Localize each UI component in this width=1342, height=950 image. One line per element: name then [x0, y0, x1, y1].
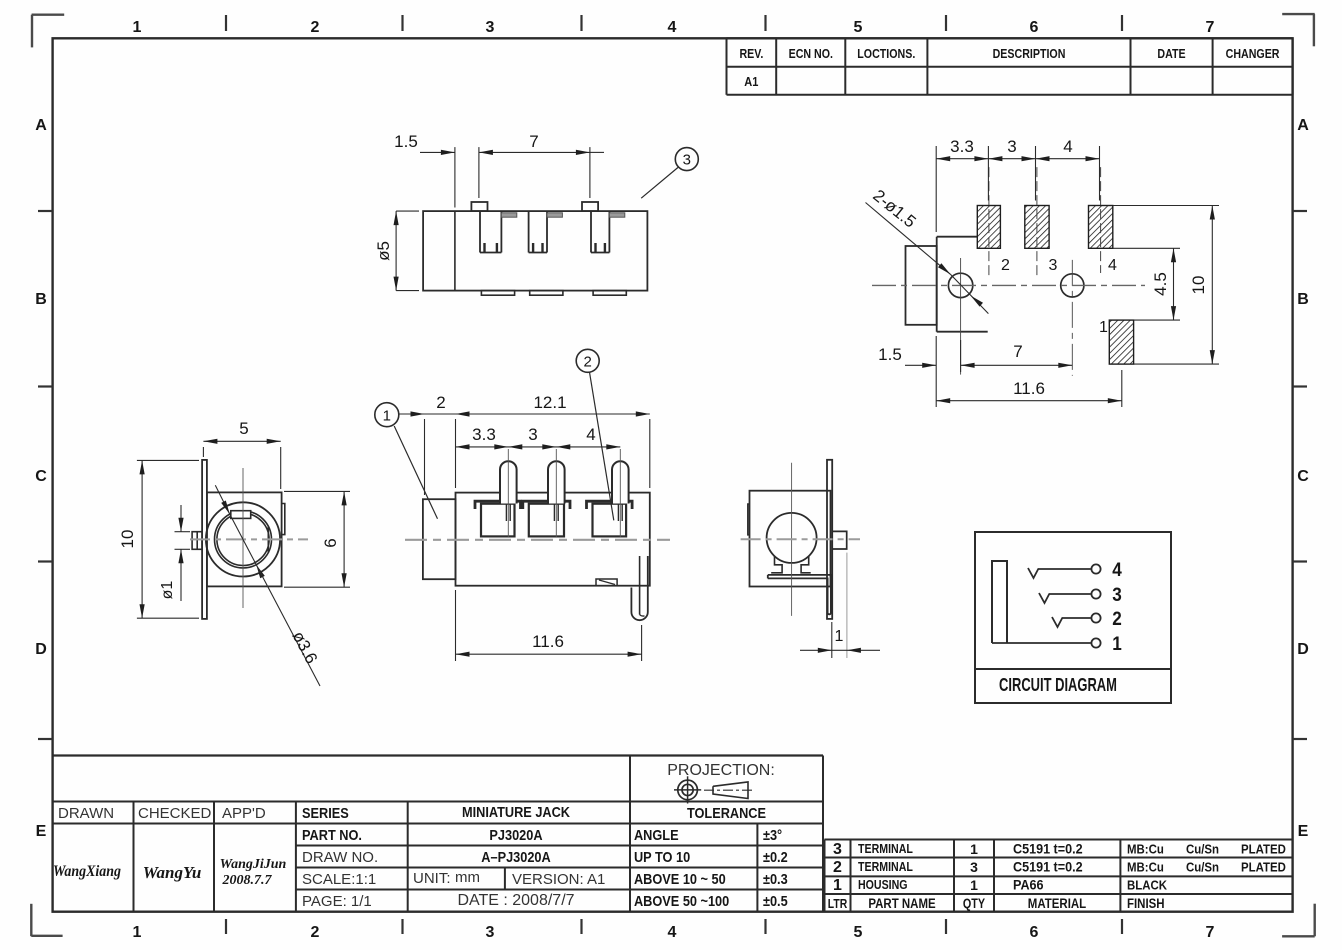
svg-text:1.5: 1.5 — [394, 132, 418, 151]
front view barrel circle — [206, 502, 280, 576]
bom header row — [828, 896, 1165, 911]
svg-text:2: 2 — [436, 393, 445, 412]
section view body — [456, 493, 650, 586]
svg-text:3.3: 3.3 — [472, 425, 496, 444]
circuit wire pin 3 — [1039, 593, 1091, 603]
signature drawn — [53, 863, 121, 880]
right view dimension 1 — [800, 553, 880, 658]
svg-text:C5191 t=0.2: C5191 t=0.2 — [1013, 859, 1083, 875]
svg-text:PART NAME: PART NAME — [868, 896, 935, 911]
svg-text:12.1: 12.1 — [533, 393, 566, 412]
section view contact cup 2 — [475, 501, 521, 536]
pcb pad 1 hatched — [1109, 320, 1133, 364]
svg-text:VERSION: A1: VERSION: A1 — [512, 871, 605, 888]
pcb pad 4 number — [1108, 257, 1117, 274]
section view pin 2 — [500, 449, 517, 537]
pcb pad 1 number — [1099, 319, 1108, 336]
right view centerlines — [741, 463, 860, 616]
svg-text:1: 1 — [1099, 319, 1108, 336]
pcb pad 2 hatched — [977, 206, 1000, 249]
svg-text:1: 1 — [970, 841, 978, 857]
svg-text:4: 4 — [668, 924, 677, 941]
svg-text:2008.7.7: 2008.7.7 — [222, 873, 273, 888]
section view pin 3 — [548, 449, 565, 537]
circuit sleeve contact — [992, 561, 1007, 643]
svg-text:BLACK: BLACK — [1127, 878, 1167, 893]
top view slot 2 with contact — [529, 211, 547, 252]
tolerance above 10-50 row — [634, 870, 788, 887]
top view slot 3 side tab — [609, 213, 624, 217]
svg-text:4: 4 — [586, 425, 595, 444]
svg-text:E: E — [1298, 823, 1309, 840]
bom row 1 housing — [833, 877, 1167, 894]
pcb horizontal centerline — [872, 284, 1145, 286]
section view dimension 11.6 — [456, 590, 642, 661]
circuit diagram title — [999, 676, 1117, 696]
border zone letters left — [35, 117, 47, 840]
pcb pad 2 number — [1001, 257, 1010, 274]
front view flange plate — [202, 460, 207, 619]
section view dimension 12.1 — [425, 393, 650, 488]
svg-text:CHECKED: CHECKED — [138, 805, 212, 822]
top view body outline — [423, 211, 647, 291]
svg-text:DESCRIPTION: DESCRIPTION — [993, 46, 1066, 61]
svg-text:3: 3 — [1007, 137, 1016, 156]
section view snap hook — [596, 579, 617, 586]
revision table — [727, 38, 1293, 95]
section view dimensions 3.3 3 4 — [456, 425, 621, 450]
pcb dimension 10 — [1113, 206, 1219, 365]
pcb pad 4 hatched — [1089, 206, 1113, 249]
pcb dimension 3.3 3 4 — [936, 137, 1099, 232]
pcb pad 3 centerline — [1036, 167, 1038, 276]
svg-text:4.5: 4.5 — [1151, 272, 1170, 296]
circuit terminal 1 — [1091, 632, 1121, 654]
projection symbol target circle — [674, 776, 701, 803]
svg-text:DATE : 2008/7/7: DATE : 2008/7/7 — [457, 892, 574, 909]
svg-text:7: 7 — [1013, 342, 1022, 361]
balloon 1 with leader — [375, 403, 438, 519]
svg-text:2: 2 — [311, 19, 320, 36]
svg-text:A1: A1 — [744, 74, 758, 89]
svg-text:UP TO 10: UP TO 10 — [634, 848, 690, 865]
svg-text:LOCTIONS.: LOCTIONS. — [857, 46, 915, 61]
svg-text:PROJECTION:: PROJECTION: — [667, 762, 775, 779]
circuit wire pin 2 — [1052, 617, 1091, 627]
bom row 2 terminal — [833, 859, 1286, 876]
svg-text:11.6: 11.6 — [532, 632, 564, 651]
section view dc pin — [631, 556, 647, 620]
svg-text:10: 10 — [1189, 276, 1208, 295]
tolerance up to 10 row — [634, 848, 788, 865]
front view dimension 6 — [284, 491, 350, 587]
svg-text:B: B — [35, 291, 47, 308]
top view bottom terminal 2 — [481, 291, 514, 296]
title header drawn checked appd — [58, 805, 266, 822]
front view centerlines — [190, 468, 308, 608]
tolerance table header — [687, 804, 766, 821]
svg-text:1: 1 — [833, 877, 842, 894]
svg-text:ø5: ø5 — [374, 241, 393, 261]
svg-text:CHANGER: CHANGER — [1226, 46, 1280, 61]
circuit terminal 3 — [1091, 583, 1121, 605]
svg-text:LTR: LTR — [828, 897, 848, 911]
svg-text:APP'D: APP'D — [222, 805, 266, 822]
svg-text:WangJiJun: WangJiJun — [220, 857, 287, 872]
border zone letters right — [1297, 117, 1309, 840]
front view right latch bump — [282, 504, 285, 535]
front view body — [207, 492, 282, 586]
svg-text:3: 3 — [486, 924, 495, 941]
svg-text:3: 3 — [833, 841, 842, 858]
svg-text:UNIT:: UNIT: — [413, 870, 451, 887]
svg-text:PLATED: PLATED — [1241, 842, 1286, 857]
bom row 3 terminal — [833, 841, 1286, 858]
svg-text:D: D — [1297, 641, 1309, 658]
projection symbol cone — [704, 782, 753, 799]
top view pin tab A — [471, 202, 487, 211]
svg-text:1: 1 — [383, 407, 391, 424]
svg-text:±0.3: ±0.3 — [763, 870, 788, 887]
pcb dimension 7 — [961, 342, 1073, 368]
svg-text:±0.5: ±0.5 — [763, 892, 788, 909]
front view dimension dia 3.6 leader — [215, 485, 321, 686]
circuit wire pin 4 — [1028, 568, 1091, 578]
svg-text:ø1: ø1 — [159, 581, 176, 600]
svg-text:Cu/Sn: Cu/Sn — [1186, 860, 1219, 875]
svg-text:MB:Cu: MB:Cu — [1127, 860, 1164, 875]
svg-text:1.5: 1.5 — [878, 345, 902, 364]
svg-text:3: 3 — [683, 152, 691, 169]
front view contact window — [231, 511, 251, 519]
svg-text:ABOVE 10 ~ 50: ABOVE 10 ~ 50 — [634, 870, 726, 887]
svg-text:PART NO.: PART NO. — [302, 826, 362, 843]
revision A1 entry — [744, 74, 758, 89]
pcb label 2-dia1.5 with leader — [866, 186, 989, 314]
svg-text:A: A — [1297, 117, 1309, 134]
front view dimension 5 — [203, 419, 280, 489]
svg-text:TOLERANCE: TOLERANCE — [687, 804, 766, 821]
svg-text:4: 4 — [1063, 137, 1072, 156]
svg-text:2: 2 — [584, 353, 592, 370]
svg-text:±0.2: ±0.2 — [763, 848, 788, 865]
pcb pad 4 centerline — [1100, 167, 1102, 273]
balloon 2 with leader — [576, 349, 614, 520]
pcb dimension 1.5 — [878, 336, 960, 407]
circuit wire pin 1 — [992, 642, 1091, 644]
svg-text:DRAW NO.: DRAW NO. — [302, 849, 378, 866]
title page date row — [302, 892, 575, 910]
bom table grid — [824, 840, 1292, 912]
top view slot 1 side tab — [501, 213, 516, 217]
pcb pad 2 centerline — [988, 167, 990, 276]
svg-text:C: C — [1297, 468, 1309, 485]
svg-text:DATE: DATE — [1157, 46, 1185, 61]
svg-text:B: B — [1297, 291, 1309, 308]
svg-text:1: 1 — [1112, 632, 1122, 654]
title block grid — [53, 756, 823, 912]
signature checked — [143, 863, 202, 882]
svg-text:A: A — [35, 117, 47, 134]
svg-text:3: 3 — [528, 425, 537, 444]
right view flange plate — [827, 460, 832, 619]
section view dimension 2 — [399, 393, 446, 495]
top view pin tab B — [582, 202, 598, 211]
front view dimension 10 — [118, 460, 199, 618]
circuit terminal 2 — [1091, 607, 1121, 629]
svg-text:ABOVE 50 ~100: ABOVE 50 ~100 — [634, 892, 729, 909]
svg-text:DRAWN: DRAWN — [58, 805, 114, 822]
pcb pattern outline — [906, 237, 988, 332]
svg-text:C: C — [35, 468, 47, 485]
svg-text:TERMINAL: TERMINAL — [858, 860, 913, 874]
svg-text:ECN NO.: ECN NO. — [789, 46, 833, 61]
svg-text:MB:Cu: MB:Cu — [1127, 842, 1164, 857]
top view bottom terminal 4 — [593, 291, 626, 296]
front view left pin tab — [192, 532, 202, 550]
top view dimension 1.5 — [394, 132, 479, 208]
right view bent terminal 1 — [768, 575, 831, 614]
border zone numbers bottom — [133, 924, 1215, 941]
title part no row — [302, 826, 543, 843]
right view center terminal ball — [767, 513, 817, 573]
svg-text:6: 6 — [1030, 924, 1039, 941]
svg-text:SCALE:1:1: SCALE:1:1 — [302, 871, 376, 888]
svg-text:ANGLE: ANGLE — [634, 826, 679, 843]
top view slot 3 with contact — [591, 211, 609, 252]
svg-text:2: 2 — [1001, 257, 1010, 274]
pcb pad 3 number — [1049, 257, 1058, 274]
top view dimension 7 — [479, 132, 604, 198]
tolerance above 50-100 row — [634, 892, 788, 909]
section view barrel — [423, 499, 456, 579]
svg-text:PA66: PA66 — [1013, 877, 1044, 893]
svg-text:6: 6 — [1030, 19, 1039, 36]
svg-text:SERIES: SERIES — [302, 804, 349, 821]
svg-text:CIRCUIT DIAGRAM: CIRCUIT DIAGRAM — [999, 676, 1117, 696]
svg-text:1: 1 — [835, 628, 844, 645]
right view body — [750, 491, 831, 587]
svg-text:7: 7 — [1206, 19, 1215, 36]
svg-text:C5191 t=0.2: C5191 t=0.2 — [1013, 841, 1083, 857]
svg-text:QTY: QTY — [963, 896, 985, 911]
svg-text:5: 5 — [854, 19, 863, 36]
section view contact cup 4 — [587, 501, 633, 536]
balloon 3 with leader — [641, 148, 698, 199]
svg-text:5: 5 — [854, 924, 863, 941]
svg-text:HOUSING: HOUSING — [858, 878, 908, 892]
svg-text:WangYu: WangYu — [143, 863, 202, 882]
border zone numbers top — [133, 19, 1215, 36]
right view left notch — [748, 504, 750, 535]
svg-text:PJ3020A: PJ3020A — [489, 826, 542, 843]
svg-text:TERMINAL: TERMINAL — [858, 842, 913, 856]
svg-text:A–PJ3020A: A–PJ3020A — [481, 848, 550, 865]
pcb dimension 11.6 — [936, 370, 1122, 407]
top view bottom terminal 3 — [530, 291, 563, 296]
svg-text:2: 2 — [833, 859, 842, 876]
svg-text:10: 10 — [118, 530, 137, 549]
tolerance angle row — [634, 826, 782, 843]
svg-text:7: 7 — [529, 132, 538, 151]
svg-text:3: 3 — [970, 859, 978, 875]
svg-text:1: 1 — [133, 19, 142, 36]
svg-text:PAGE: 1/1: PAGE: 1/1 — [302, 893, 372, 910]
svg-text:3: 3 — [486, 19, 495, 36]
title series row — [302, 803, 570, 821]
svg-text:7: 7 — [1206, 924, 1215, 941]
title draw no row — [302, 848, 551, 866]
projection box — [667, 762, 775, 779]
pcb dimension 4.5 — [1113, 248, 1180, 320]
svg-text:3: 3 — [1112, 583, 1122, 605]
svg-text:Cu/Sn: Cu/Sn — [1186, 842, 1219, 857]
svg-text:4: 4 — [1108, 257, 1117, 274]
svg-text:1: 1 — [133, 924, 142, 941]
svg-text:4: 4 — [668, 19, 677, 36]
title scale unit version row — [302, 869, 605, 888]
top view slot 1 with contact — [480, 211, 501, 252]
svg-text:3.3: 3.3 — [950, 137, 974, 156]
front view dimension dia 1 — [159, 505, 190, 601]
section view pin 4 — [612, 449, 629, 537]
top view dimension dia 5 — [374, 211, 419, 291]
svg-text:2: 2 — [1112, 607, 1122, 629]
svg-text:E: E — [36, 823, 47, 840]
svg-text:FINISH: FINISH — [1127, 896, 1165, 911]
svg-text:3: 3 — [1049, 257, 1058, 274]
section view centerline — [405, 539, 670, 541]
svg-text:WangXiang: WangXiang — [53, 863, 121, 880]
pcb hole A — [948, 258, 972, 375]
svg-text:11.6: 11.6 — [1013, 379, 1045, 398]
circuit terminal 4 — [1091, 558, 1122, 580]
svg-text:1: 1 — [970, 877, 978, 893]
svg-text:REV.: REV. — [739, 46, 763, 61]
svg-text:PLATED: PLATED — [1241, 860, 1286, 875]
svg-text:MATERIAL: MATERIAL — [1028, 896, 1087, 911]
top view slot 2 side tab — [547, 213, 562, 217]
svg-text:4: 4 — [1112, 558, 1122, 580]
circuit diagram box — [975, 532, 1171, 703]
pcb pad 3 hatched — [1025, 206, 1049, 249]
svg-text:±3°: ±3° — [763, 826, 782, 843]
pcb hole B — [1061, 260, 1084, 376]
svg-text:MINIATURE JACK: MINIATURE JACK — [462, 803, 570, 820]
svg-text:5: 5 — [239, 419, 248, 438]
front view jack hole rings — [215, 511, 272, 568]
revision table headers — [739, 46, 1279, 61]
svg-text:mm: mm — [455, 869, 480, 886]
section view contact cup 3 — [523, 501, 570, 536]
signature approved — [220, 857, 287, 888]
right view side pin tab — [832, 531, 847, 549]
svg-text:D: D — [35, 641, 47, 658]
svg-text:6: 6 — [321, 538, 340, 547]
svg-text:2: 2 — [311, 924, 320, 941]
